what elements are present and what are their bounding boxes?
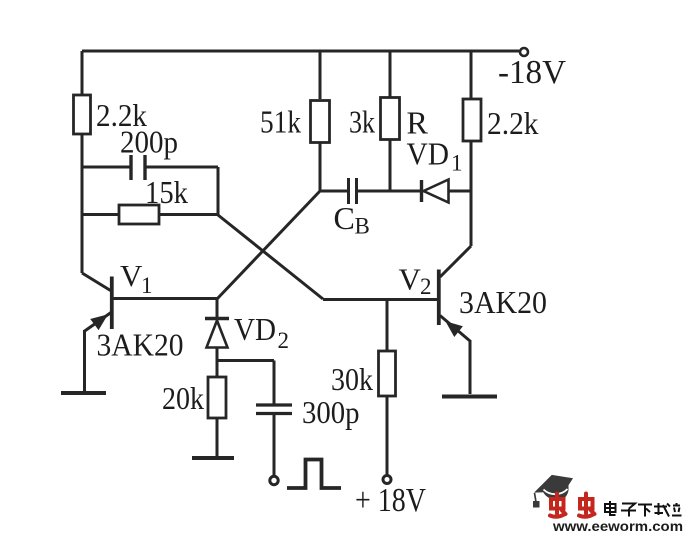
svg-text:-18V: -18V bbox=[498, 54, 566, 91]
svg-text:3AK20: 3AK20 bbox=[459, 284, 547, 320]
wire left branch upper bbox=[81, 51, 84, 95]
resistor 30k bbox=[379, 351, 396, 396]
logo character chong 2 bbox=[579, 494, 595, 517]
diode VD2 bbox=[205, 319, 229, 348]
wire V1 base bbox=[111, 297, 217, 300]
svg-text:1: 1 bbox=[451, 151, 463, 176]
svg-text:30k: 30k bbox=[331, 361, 373, 397]
wire VD2 cathode down bbox=[216, 348, 219, 378]
wire 3k top lead bbox=[389, 51, 392, 98]
svg-text:1: 1 bbox=[141, 273, 153, 298]
capacitor CB bbox=[349, 178, 357, 204]
wire to VD1 bbox=[390, 190, 421, 193]
wire 3k bottom lead bbox=[389, 140, 392, 192]
svg-text:VD: VD bbox=[234, 311, 276, 347]
label V2 bbox=[399, 262, 432, 300]
wire 200p left lead bbox=[82, 166, 131, 169]
wire top supply rail bbox=[82, 50, 519, 53]
wire cross-coupling diagonal to V2 base bbox=[218, 215, 323, 299]
svg-text:3AK20: 3AK20 bbox=[97, 327, 184, 363]
wire VD1 to collector branch bbox=[449, 190, 472, 193]
label VD1 bbox=[407, 136, 463, 176]
terminal -18V bbox=[520, 48, 528, 56]
wire 15k left lead bbox=[82, 213, 119, 216]
wire 2.2k bottom to V2 collector bbox=[470, 141, 473, 246]
wire 30k bottom lead bbox=[386, 396, 389, 475]
wire 200p right lead bbox=[145, 167, 218, 215]
wire CB right lead bbox=[357, 190, 391, 193]
resistor R1 2.2k left bbox=[74, 95, 91, 134]
svg-text:V: V bbox=[120, 258, 143, 293]
ground V2 emitter bbox=[442, 395, 497, 399]
svg-text:20k: 20k bbox=[162, 380, 204, 416]
svg-text:www.eeworm.com: www.eeworm.com bbox=[552, 519, 683, 533]
svg-text:2: 2 bbox=[420, 274, 432, 299]
terminal trigger input bbox=[270, 476, 278, 484]
wire VD2 anode lead bbox=[216, 299, 219, 318]
wire cross-coupling diagonal to V1 base bbox=[217, 191, 320, 299]
wire V2 emitter bbox=[469, 340, 472, 394]
wire V2 base bbox=[323, 298, 438, 301]
wire 30k top lead bbox=[386, 300, 389, 351]
svg-text:VD: VD bbox=[407, 136, 450, 172]
pulse waveform symbol bbox=[287, 460, 341, 489]
transistor V2 3AK20 bbox=[439, 246, 471, 341]
ground V1 emitter bbox=[61, 391, 106, 395]
logo text dianzi xiazai zhan bbox=[605, 501, 682, 517]
svg-text:51k: 51k bbox=[260, 104, 301, 140]
svg-text:200p: 200p bbox=[120, 124, 178, 160]
svg-text:15k: 15k bbox=[145, 174, 188, 210]
svg-text:C: C bbox=[334, 200, 355, 236]
diode VD1 bbox=[422, 180, 449, 203]
capacitor 300p bbox=[256, 405, 292, 414]
wire 300p bottom lead bbox=[273, 414, 276, 477]
logo character chong 1 bbox=[550, 494, 566, 517]
svg-text:3k: 3k bbox=[349, 104, 375, 140]
wire V1 emitter bbox=[83, 330, 86, 391]
wire 20k bottom bbox=[216, 418, 219, 456]
svg-text:B: B bbox=[355, 214, 370, 239]
terminal +18V bbox=[383, 476, 391, 484]
logo tassel bbox=[534, 493, 540, 507]
wire left vertical V1 collector feed bbox=[81, 134, 84, 273]
resistor 51k bbox=[311, 101, 330, 143]
wire 51k bottom lead bbox=[319, 143, 322, 193]
wire CB left lead bbox=[320, 190, 348, 193]
svg-text:300p: 300p bbox=[302, 394, 360, 430]
svg-text:2.2k: 2.2k bbox=[487, 105, 539, 141]
resistor 3k R bbox=[381, 98, 400, 140]
label CB bbox=[334, 200, 370, 239]
ground 20k bbox=[192, 456, 234, 460]
label V1 bbox=[120, 258, 153, 298]
svg-text:V: V bbox=[399, 262, 422, 297]
wire 15k right lead bbox=[159, 213, 218, 216]
resistor 2.2k right bbox=[463, 99, 481, 141]
wire to 300p branch bbox=[217, 361, 274, 405]
svg-text:+ 18V: + 18V bbox=[355, 482, 426, 519]
resistor 20k bbox=[208, 377, 226, 418]
resistor 15k bbox=[119, 205, 159, 224]
wire 51k top lead bbox=[319, 51, 322, 99]
capacitor C 200p bbox=[131, 155, 145, 180]
transistor V1 3AK20 bbox=[82, 273, 112, 332]
logo graduation cap bbox=[534, 475, 573, 500]
wire right branch upper bbox=[470, 51, 473, 99]
label VD2 bbox=[234, 311, 289, 353]
svg-text:2: 2 bbox=[278, 328, 290, 353]
